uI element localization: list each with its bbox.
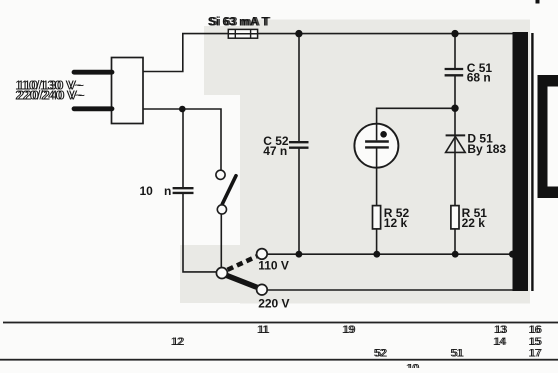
svg-text:n: n <box>164 184 171 198</box>
svg-text:15: 15 <box>530 336 542 348</box>
switch contact middle circle <box>217 205 226 214</box>
value C52 47n <box>263 144 287 158</box>
junction dot 110V rail C52 <box>296 251 303 258</box>
label 220 V tap <box>258 297 289 311</box>
callout number 12 <box>171 336 185 348</box>
value R51 22k <box>462 216 486 230</box>
label mains voltage 220/240 <box>15 89 85 103</box>
svg-text:13: 13 <box>495 324 507 336</box>
svg-text:10: 10 <box>140 184 154 198</box>
label R52 <box>384 206 410 220</box>
photo gray background main <box>240 20 530 304</box>
photo gray background bottom-left band <box>180 245 242 303</box>
caption rule top <box>3 322 558 324</box>
capacitor 10n plates <box>173 188 194 193</box>
switch blade (open contact) <box>222 176 236 204</box>
label C51 <box>467 61 493 75</box>
junction dot plug bottom branch <box>179 106 186 113</box>
svg-text:68 n: 68 n <box>467 70 491 84</box>
transformer secondary bracket <box>538 75 558 198</box>
svg-text:12 k: 12 k <box>384 216 408 230</box>
svg-text:19: 19 <box>343 324 355 336</box>
transformer primary bar <box>513 32 529 291</box>
value C51 68n <box>467 70 491 84</box>
label R51 <box>462 206 488 220</box>
value D51 By183 <box>467 142 506 156</box>
junction dot 110V rail R51 <box>452 251 459 258</box>
callout number 14 <box>493 336 507 348</box>
callout number 51 <box>450 347 464 359</box>
page edge mark <box>536 0 540 4</box>
contact circle 110V <box>257 249 268 260</box>
selector pivot circle <box>216 268 227 279</box>
label C52 <box>263 134 289 148</box>
svg-text:16: 16 <box>530 324 542 336</box>
callout number 52 <box>374 347 388 359</box>
value R52 12k <box>384 216 408 230</box>
svg-text:220 V: 220 V <box>258 297 289 311</box>
callout number 13 <box>494 324 508 336</box>
fuse Si 63 mAT body <box>228 29 257 38</box>
callout number 16 <box>528 324 542 336</box>
svg-text:12: 12 <box>172 336 184 348</box>
caption rule bottom <box>0 359 558 361</box>
svg-text:51: 51 <box>452 347 464 359</box>
photo gray background top-left band <box>204 26 242 95</box>
svg-text:220/240 V~: 220/240 V~ <box>18 89 86 103</box>
diode D51 <box>446 135 466 152</box>
capacitor C52 plates <box>289 142 309 148</box>
wire: top rail to transformer bar <box>182 33 513 35</box>
wire: 220V rail <box>267 289 514 291</box>
wire: C51 branch from top rail <box>454 34 456 69</box>
wire: switch middle contact down to pivot <box>220 214 222 268</box>
label 110 V tap <box>258 258 289 272</box>
wire: plug top output to top rail corner <box>143 34 183 72</box>
svg-text:17: 17 <box>530 347 542 359</box>
svg-text:110 V: 110 V <box>258 258 289 272</box>
mains plug pin top <box>74 70 112 75</box>
junction dot 110V rail at bar <box>509 251 516 258</box>
svg-text:10: 10 <box>407 363 419 368</box>
callout number 10 <box>406 363 420 373</box>
wire: left branch down to capacitor 10n <box>182 109 184 188</box>
mains plug connector body <box>112 58 144 124</box>
junction dot top rail C52 <box>295 30 302 37</box>
label D51 <box>467 132 493 146</box>
wire: resistor R52 to 110V rail <box>376 229 378 254</box>
junction dot top rail C51 <box>451 30 458 37</box>
callout number 19 <box>342 324 356 336</box>
callout number 15 <box>528 336 542 348</box>
svg-text:22 k: 22 k <box>462 216 486 230</box>
wire: plug bottom output to switch top <box>143 109 221 170</box>
switch contact top circle <box>216 170 225 179</box>
resistor R52 body <box>373 206 381 229</box>
svg-text:52: 52 <box>375 347 387 359</box>
svg-text:14: 14 <box>494 336 506 348</box>
callout number 17 <box>528 347 542 359</box>
callout number 11 <box>257 324 270 336</box>
selector dashed blade to 110V <box>228 256 257 269</box>
resistor R51 body <box>451 206 459 229</box>
wire: C51 through diode D51 to resistor R51 <box>454 75 456 205</box>
wire: C52 branch lower <box>298 148 300 255</box>
capacitor C51 plates <box>445 69 464 75</box>
svg-text:Si 63 mA T: Si 63 mA T <box>210 15 272 29</box>
label capacitor 10n value <box>140 184 172 198</box>
wire: capacitor 10n to bottom rail and pivot <box>183 193 217 272</box>
motor run capacitor (circle component) <box>354 124 398 168</box>
wire: resistor R51 to 110V rail <box>454 229 456 254</box>
label Si 63 mAT <box>208 15 271 29</box>
wire: 110V rail <box>267 253 514 255</box>
svg-text:47 n: 47 n <box>263 144 287 158</box>
junction dot C51 diode link <box>451 105 458 112</box>
transformer core line <box>531 33 533 291</box>
selector solid blade to 220V <box>226 275 257 287</box>
junction dot 110V rail R52 <box>373 251 380 258</box>
wire: motor capacitor bottom to resistor R52 <box>376 167 378 206</box>
label mains voltage 110/130 <box>15 79 84 93</box>
mains plug pin bottom <box>74 106 112 111</box>
wire: C52 branch upper <box>298 34 300 143</box>
contact circle 220V <box>257 284 268 295</box>
svg-text:11: 11 <box>258 324 269 336</box>
svg-text:By 183: By 183 <box>467 142 506 156</box>
wire: link from motor capacitor top to diode branch <box>377 108 455 125</box>
